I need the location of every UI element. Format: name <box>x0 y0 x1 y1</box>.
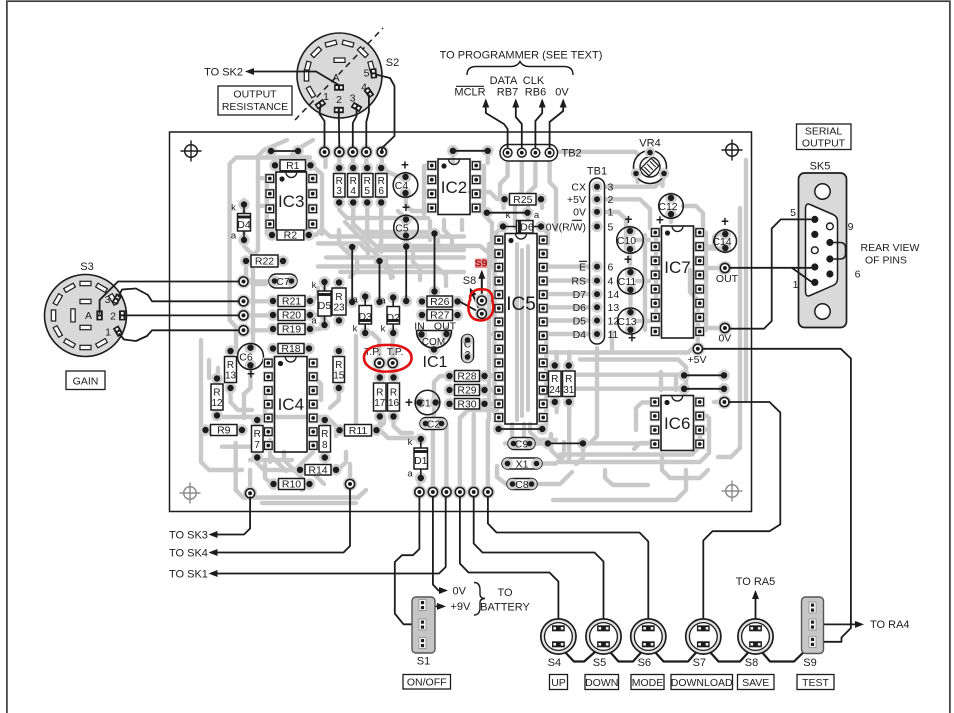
resistor R26 <box>416 296 428 308</box>
S3 wiper pad A <box>96 310 102 320</box>
capacitor C4 <box>400 171 412 183</box>
svg-text:k: k <box>408 437 413 448</box>
resistor R9 <box>200 424 212 436</box>
resistor R2 <box>266 229 278 241</box>
resistor R21 <box>267 295 279 307</box>
S2 contact 3 <box>351 102 363 113</box>
svg-text:3: 3 <box>105 294 111 306</box>
svg-text:CLK: CLK <box>523 75 545 87</box>
svg-text:D4: D4 <box>237 219 251 231</box>
S2 wiper pad A <box>334 84 344 90</box>
svg-text:ON/OFF: ON/OFF <box>407 677 447 689</box>
red circled pads S8 <box>475 294 489 308</box>
S2 contact 4 <box>363 87 374 99</box>
pad to S7 wire <box>717 395 731 409</box>
wire battery 0V <box>433 497 444 591</box>
svg-text:4: 4 <box>361 82 367 94</box>
wire board pad to S7 <box>703 402 780 624</box>
switch S9 <box>802 597 824 654</box>
SK5 pins <box>811 216 818 223</box>
svg-text:R20: R20 <box>282 310 301 322</box>
svg-text:BATTERY: BATTERY <box>480 602 530 614</box>
connector TB2 <box>500 145 558 162</box>
svg-text:E: E <box>579 261 586 273</box>
svg-text:IC6: IC6 <box>664 414 690 433</box>
svg-text:R9: R9 <box>217 425 231 437</box>
svg-text:0V: 0V <box>718 333 731 345</box>
wire 0V to SK5 pin5 <box>730 219 811 328</box>
svg-text:S8: S8 <box>463 275 476 287</box>
svg-text:TO SK4: TO SK4 <box>169 547 208 559</box>
svg-text:0V(R/W): 0V(R/W) <box>546 221 586 233</box>
svg-text:OUTPUT: OUTPUT <box>802 138 846 150</box>
svg-text:TO PROGRAMMER (SEE TEXT): TO PROGRAMMER (SEE TEXT) <box>440 49 603 61</box>
connector SK5 body <box>799 173 847 328</box>
svg-text:D6: D6 <box>573 302 587 314</box>
svg-text:SK5: SK5 <box>810 161 831 173</box>
S2 contact 5 <box>370 68 377 79</box>
red ellipse around test points <box>364 345 412 372</box>
svg-text:OUT: OUT <box>716 273 739 285</box>
svg-text:6: 6 <box>608 261 614 273</box>
diode D3 <box>359 291 371 303</box>
pad +5V <box>691 342 705 356</box>
label MODE <box>631 675 664 690</box>
svg-text:TO SK2: TO SK2 <box>204 66 243 78</box>
resistor R19 <box>267 323 279 335</box>
PCB board outline <box>170 132 752 512</box>
svg-text:D7: D7 <box>573 289 587 301</box>
svg-text:S2: S2 <box>386 57 399 69</box>
pad 0V <box>718 321 732 335</box>
svg-text:R: R <box>227 360 234 371</box>
wire jumper vertical J2 <box>374 255 386 267</box>
svg-text:TEST: TEST <box>802 677 829 689</box>
resistor R8 <box>319 414 331 426</box>
svg-text:1: 1 <box>608 207 614 219</box>
ic IC5 <box>493 235 504 246</box>
svg-text:C9: C9 <box>515 438 529 450</box>
svg-text:4: 4 <box>608 275 614 287</box>
wire TO RA4 <box>817 623 860 625</box>
svg-text:+: + <box>721 214 729 229</box>
svg-text:a: a <box>380 296 386 307</box>
svg-text:k: k <box>381 324 386 335</box>
svg-text:R: R <box>551 374 558 385</box>
pad OUT <box>718 261 732 275</box>
crystal X1 <box>502 458 542 469</box>
svg-text:3: 3 <box>350 93 356 105</box>
ic IC4 <box>263 358 274 369</box>
svg-text:R: R <box>336 176 343 187</box>
svg-text:TO SK1: TO SK1 <box>169 568 208 580</box>
svg-text:7: 7 <box>254 440 260 451</box>
label DOWNLOAD <box>671 675 733 690</box>
svg-text:9: 9 <box>848 221 854 233</box>
wire S2 pin5 to board <box>376 75 395 152</box>
pads bottom row <box>412 485 426 499</box>
resistor R1 <box>269 160 281 172</box>
connector TB1 <box>590 178 605 344</box>
push switch S4 <box>541 619 576 654</box>
resistor R4 <box>347 162 359 174</box>
mounting hole <box>184 487 197 500</box>
svg-text:6: 6 <box>378 186 384 197</box>
black arrow to red S9 <box>481 273 483 296</box>
svg-text:R14: R14 <box>308 464 327 476</box>
svg-text:DOWN: DOWN <box>585 677 618 689</box>
svg-text:4: 4 <box>350 186 356 197</box>
svg-text:1: 1 <box>323 91 329 103</box>
svg-text:+: + <box>402 200 410 215</box>
svg-text:R: R <box>335 360 342 371</box>
wire S2 pin3 to board <box>353 109 357 147</box>
svg-text:S9: S9 <box>803 657 816 669</box>
resistor R10 <box>268 478 280 490</box>
resistor R24 <box>549 360 561 372</box>
svg-text:1: 1 <box>793 279 799 291</box>
resistor R29 <box>444 384 456 396</box>
wire daisy chain S4-S9 <box>558 644 812 662</box>
diode D2 <box>387 292 399 304</box>
svg-text:+: + <box>401 158 409 173</box>
svg-text:S6: S6 <box>638 657 651 669</box>
svg-text:R: R <box>565 374 572 385</box>
svg-text:23: 23 <box>333 303 345 314</box>
svg-text:+5V: +5V <box>688 354 707 366</box>
wire jumper left of TB2 <box>447 145 459 157</box>
ic IC7 <box>650 227 661 238</box>
wire jumper top-left <box>265 145 277 157</box>
brace TO BATTERY <box>474 583 485 616</box>
svg-text:CX: CX <box>571 182 586 194</box>
svg-text:COM: COM <box>422 337 445 348</box>
svg-text:+: + <box>628 331 636 346</box>
wire +5V to S9 and down right side <box>702 349 851 642</box>
svg-text:TB1: TB1 <box>587 166 607 178</box>
svg-text:k: k <box>231 203 236 214</box>
svg-text:5: 5 <box>364 68 370 80</box>
resistor R28 <box>444 370 456 382</box>
svg-text:R: R <box>376 388 383 399</box>
svg-text:D1: D1 <box>414 455 428 467</box>
resistor R11 <box>334 424 346 436</box>
svg-text:C14: C14 <box>712 236 731 248</box>
svg-text:S4: S4 <box>548 657 561 669</box>
svg-text:D3: D3 <box>358 311 372 323</box>
svg-text:R: R <box>378 176 385 187</box>
capacitor C14 <box>720 228 732 240</box>
resistor R25 <box>499 193 511 205</box>
svg-text:17: 17 <box>374 398 386 409</box>
svg-text:R18: R18 <box>281 343 300 355</box>
wire jumper right of R31 <box>678 383 690 395</box>
S3 contact 3 <box>112 293 123 305</box>
capacitor C9 <box>508 438 535 450</box>
svg-text:OUTPUT: OUTPUT <box>233 89 277 101</box>
wire pad1 to S1 <box>395 497 420 624</box>
wire jumper vertical J4 <box>429 228 441 240</box>
svg-text:k: k <box>506 210 511 221</box>
diode D6 horizontal <box>497 221 509 233</box>
label OUTPUT RESISTANCE <box>218 86 292 115</box>
label DOWN <box>585 675 619 690</box>
wire RB6 to TB2 pin3 <box>535 101 542 147</box>
wire jumper near C9 <box>542 438 554 450</box>
wire jumper vertical J1 <box>346 241 358 253</box>
wire jumper right of R24 <box>678 370 690 382</box>
push switch S6 <box>631 619 666 654</box>
S3 contact 1 <box>113 325 124 337</box>
wire pad6 to S6 <box>488 497 648 624</box>
label TEST <box>797 675 834 690</box>
push switch S5 <box>586 619 621 654</box>
resistor R16 <box>388 372 400 384</box>
resistor R12 <box>211 373 223 385</box>
mounting hole <box>726 485 739 498</box>
svg-text:R1: R1 <box>286 160 300 172</box>
svg-text:C1: C1 <box>417 397 431 409</box>
capacitor C8 <box>507 479 537 490</box>
svg-text:DATA: DATA <box>490 75 518 87</box>
svg-text:a: a <box>231 231 237 242</box>
wire S3 pin3 to board <box>119 289 240 302</box>
push switch S7 <box>686 619 721 654</box>
resistor R20 <box>267 309 279 321</box>
svg-text:TO: TO <box>497 587 513 599</box>
svg-text:TO SK3: TO SK3 <box>169 529 208 541</box>
svg-text:3: 3 <box>336 186 342 197</box>
svg-text:+9V: +9V <box>451 601 472 613</box>
svg-text:R22: R22 <box>255 256 274 268</box>
svg-text:RB7: RB7 <box>497 87 518 99</box>
S3 contact 2 <box>119 310 125 320</box>
svg-text:R: R <box>350 176 357 187</box>
S2 contact 2 <box>334 107 344 113</box>
svg-text:S1: S1 <box>417 656 430 668</box>
svg-text:D6: D6 <box>520 222 534 234</box>
wire RB7 to TB2 pin2 <box>516 101 522 147</box>
label SAVE <box>738 675 775 690</box>
svg-text:+: + <box>405 395 413 410</box>
svg-text:+: + <box>624 252 632 267</box>
svg-text:MODE: MODE <box>632 677 664 689</box>
wire pad5 to S5 <box>474 497 604 624</box>
svg-text:0V: 0V <box>573 207 586 219</box>
capacitor C1 <box>414 397 426 409</box>
wire MCLR to TB2 pin1 <box>486 101 508 147</box>
capacitor C13 <box>625 306 637 318</box>
svg-text:S3: S3 <box>80 261 93 273</box>
svg-text:OUT: OUT <box>434 321 457 333</box>
svg-text:S7: S7 <box>693 657 706 669</box>
pads left column for S3 <box>237 275 251 289</box>
svg-text:C5: C5 <box>395 222 409 234</box>
svg-text:R21: R21 <box>282 296 301 308</box>
svg-text:2: 2 <box>336 94 342 106</box>
svg-text:C11: C11 <box>618 276 637 288</box>
svg-text:IC5: IC5 <box>506 294 536 315</box>
pads top row for S2 <box>318 145 332 159</box>
svg-text:24: 24 <box>549 385 561 396</box>
svg-text:SERIAL: SERIAL <box>805 126 843 138</box>
svg-text:UP: UP <box>551 677 566 689</box>
svg-text:RB6: RB6 <box>525 87 546 99</box>
svg-text:13: 13 <box>608 302 620 314</box>
svg-text:TB2: TB2 <box>562 148 582 160</box>
regulator IC1 <box>416 329 428 341</box>
svg-text:3: 3 <box>465 350 471 361</box>
svg-text:6: 6 <box>855 269 861 281</box>
svg-text:C: C <box>464 340 471 351</box>
svg-text:C2: C2 <box>427 418 441 430</box>
trimmer VR4 <box>634 151 667 184</box>
rotary switch S2 <box>297 33 382 118</box>
svg-text:R: R <box>321 429 328 440</box>
resistor R27 <box>416 309 428 321</box>
svg-text:5: 5 <box>790 207 796 219</box>
svg-text:IC4: IC4 <box>278 395 304 414</box>
diode D4 <box>238 199 250 211</box>
wire battery +9V <box>427 605 443 607</box>
svg-text:R28: R28 <box>457 371 476 383</box>
push switch S8 <box>738 619 773 654</box>
svg-text:S8: S8 <box>745 657 758 669</box>
capacitor C11 <box>625 266 637 278</box>
svg-text:R10: R10 <box>282 479 301 491</box>
svg-text:R11: R11 <box>349 425 368 437</box>
svg-text:R: R <box>335 292 342 303</box>
S2 contact 1 <box>314 99 326 110</box>
wire pad4 to S4 <box>460 497 559 624</box>
wire S2 pin1 to board <box>320 106 325 147</box>
svg-text:5: 5 <box>608 221 614 233</box>
capacitor C7 <box>269 274 297 288</box>
svg-text:0V: 0V <box>453 585 467 597</box>
svg-text:+: + <box>625 212 633 227</box>
resistor R13 <box>225 345 237 357</box>
resistor R3 <box>333 162 345 174</box>
svg-text:R26: R26 <box>430 296 449 308</box>
resistor R6 <box>375 162 387 174</box>
svg-text:R30: R30 <box>457 398 476 410</box>
svg-text:R: R <box>213 388 220 399</box>
svg-text:S9: S9 <box>475 258 488 270</box>
ic IC6 <box>649 397 660 408</box>
pad to SK3 <box>243 486 257 500</box>
svg-text:5: 5 <box>364 186 370 197</box>
svg-text:C4: C4 <box>395 180 409 192</box>
svg-text:a: a <box>534 210 540 221</box>
switch S1 <box>412 597 435 653</box>
svg-text:RS: RS <box>571 275 586 287</box>
capacitor C6 <box>245 342 257 354</box>
svg-text:k: k <box>312 280 317 291</box>
svg-text:OF PINS: OF PINS <box>865 255 907 267</box>
wire OUT to SK5 <box>730 267 812 269</box>
resistor R15 <box>333 345 345 357</box>
svg-text:14: 14 <box>608 289 620 301</box>
svg-text:IC7: IC7 <box>664 258 690 277</box>
svg-text:R2: R2 <box>284 230 298 242</box>
svg-text:REAR VIEW: REAR VIEW <box>861 242 920 254</box>
mounting hole <box>726 144 739 157</box>
wire jumper under IC5 <box>493 423 505 435</box>
label ON/OFF <box>403 675 451 690</box>
svg-text:D5: D5 <box>573 315 587 327</box>
resistor R23 <box>333 277 345 289</box>
resistor R5 <box>361 162 373 174</box>
wire jumper vertical J3 from C5 <box>400 241 412 253</box>
wire S3 A to board <box>100 282 239 314</box>
wire jumper above D6 <box>481 207 493 219</box>
svg-text:3: 3 <box>608 182 614 194</box>
resistor R31 <box>563 360 575 372</box>
svg-text:C7: C7 <box>276 276 290 288</box>
resistor R7 <box>251 414 263 426</box>
wire S3 pin2 to board <box>125 314 239 316</box>
capacitor C12 <box>665 192 677 204</box>
svg-text:IC3: IC3 <box>278 192 304 211</box>
svg-text:IC1: IC1 <box>423 354 448 371</box>
svg-text:SAVE: SAVE <box>742 677 769 689</box>
svg-text:R25: R25 <box>513 194 532 206</box>
svg-text:2: 2 <box>608 194 614 206</box>
svg-text:C13: C13 <box>617 316 636 328</box>
svg-text:R: R <box>364 176 371 187</box>
wire R26 to S8 pad <box>460 302 481 313</box>
svg-text:R: R <box>390 388 397 399</box>
copper traces <box>247 140 288 261</box>
diode D5 <box>319 276 331 288</box>
svg-text:C12: C12 <box>658 201 677 213</box>
wire S2 pin4 to board <box>366 95 369 147</box>
svg-text:8: 8 <box>322 440 328 451</box>
resistor R22 <box>240 255 252 267</box>
mounting hole <box>185 145 198 158</box>
svg-text:C10: C10 <box>617 235 636 247</box>
resistor R18 <box>267 343 279 355</box>
resistor R17 <box>374 372 386 384</box>
svg-text:11: 11 <box>608 329 619 341</box>
diode D1 <box>415 433 427 445</box>
bracket rear view <box>834 243 846 260</box>
brace under TO PROGRAMMER <box>467 62 573 76</box>
svg-text:RESISTANCE: RESISTANCE <box>222 101 288 113</box>
svg-text:a: a <box>311 316 317 327</box>
svg-text:D2: D2 <box>386 312 400 324</box>
capacitor C5 <box>400 214 412 226</box>
svg-text:S5: S5 <box>593 657 606 669</box>
svg-text:12: 12 <box>211 398 223 409</box>
svg-text:X1: X1 <box>516 458 529 470</box>
svg-text:IN: IN <box>414 321 425 333</box>
rotary switch S3 <box>45 275 127 357</box>
svg-text:DOWNLOAD: DOWNLOAD <box>671 677 733 689</box>
svg-text:13: 13 <box>225 371 237 382</box>
label UP <box>550 675 568 690</box>
svg-text:D5: D5 <box>318 300 332 312</box>
svg-text:0V: 0V <box>555 87 569 99</box>
capacitor C2 <box>420 418 447 430</box>
ic IC2 <box>426 160 437 171</box>
svg-text:C8: C8 <box>515 479 529 491</box>
svg-text:TO RA5: TO RA5 <box>736 576 776 588</box>
svg-text:a: a <box>407 469 413 480</box>
svg-text:TO RA4: TO RA4 <box>870 619 910 631</box>
svg-text:31: 31 <box>563 385 575 396</box>
capacitor C10 <box>624 225 636 237</box>
